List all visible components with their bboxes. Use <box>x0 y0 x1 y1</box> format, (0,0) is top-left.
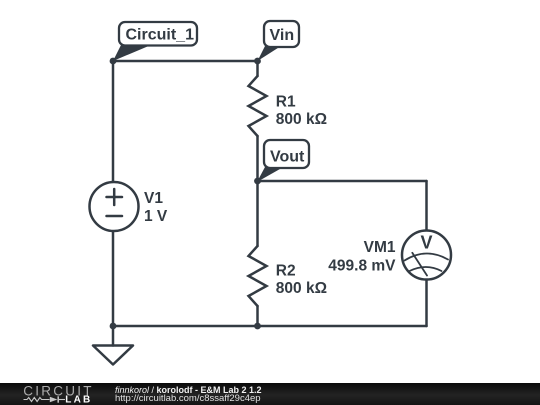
voltmeter VM1 <box>328 231 451 280</box>
node Vout <box>254 178 261 185</box>
logo resistor squiggle and diode <box>24 398 50 402</box>
wire bottom horizontal rail <box>113 325 427 328</box>
wire R1 bottom to Vout node <box>256 136 259 181</box>
footer url line <box>115 394 535 404</box>
resistor R2 <box>249 246 328 306</box>
node junction top-left <box>110 58 117 65</box>
wire left vertical (V1 bottom to ground rail) <box>112 231 115 326</box>
node bottom R2 junction <box>254 323 261 330</box>
svg-text:R1: R1 <box>276 94 296 111</box>
wire left vertical (node A to V1 top) <box>112 61 115 182</box>
svg-text:Vin: Vin <box>270 27 295 44</box>
footer title line <box>115 386 535 396</box>
node Vin <box>254 58 261 65</box>
label callout Vout <box>257 140 309 182</box>
CircuitLab logo <box>0 384 110 405</box>
svg-text:Vout: Vout <box>270 149 305 166</box>
svg-text:V1: V1 <box>144 190 163 207</box>
svg-text:499.8 mV: 499.8 mV <box>328 258 396 275</box>
footer bar <box>0 383 540 405</box>
svg-text:LAB: LAB <box>65 395 92 405</box>
wire VM1 bottom to bottom rail <box>425 280 428 327</box>
resistor R1 <box>249 76 328 136</box>
wire Vout horizontal to voltmeter branch <box>258 180 427 183</box>
svg-text:800 kΩ: 800 kΩ <box>276 280 327 297</box>
svg-text:VM1: VM1 <box>364 239 396 256</box>
node bottom-left junction <box>110 323 117 330</box>
wire top horizontal Circuit_1 to Vin <box>113 60 258 63</box>
svg-text:800 kΩ: 800 kΩ <box>276 111 327 128</box>
wire R2 bottom to bottom rail <box>256 306 259 326</box>
svg-text:1 V: 1 V <box>144 208 168 225</box>
wire Vin node to R1 top <box>256 61 259 76</box>
label callout Vin <box>258 21 300 61</box>
label callout Circuit_1 <box>113 22 197 61</box>
wire Vout node to R2 top <box>256 181 259 246</box>
voltage source V1 <box>90 182 168 231</box>
ground <box>93 326 133 365</box>
svg-text:V: V <box>420 233 432 253</box>
svg-text:Circuit_1: Circuit_1 <box>126 27 195 44</box>
svg-text:R2: R2 <box>276 263 296 280</box>
wire right vertical (to VM1 top) <box>425 181 428 231</box>
